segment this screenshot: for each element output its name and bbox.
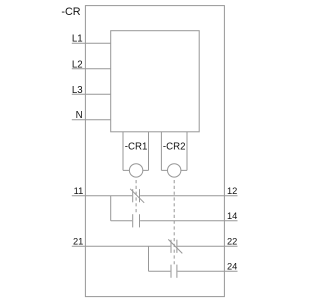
svg-text:-CR2: -CR2 <box>163 142 186 153</box>
svg-text:N: N <box>76 110 83 121</box>
svg-text:L2: L2 <box>72 60 83 71</box>
svg-text:24: 24 <box>227 262 237 272</box>
svg-text:-CR1: -CR1 <box>125 142 148 153</box>
svg-text:11: 11 <box>74 186 84 196</box>
svg-text:14: 14 <box>227 211 237 221</box>
svg-text:12: 12 <box>227 186 237 196</box>
svg-text:-CR: -CR <box>61 6 80 18</box>
svg-text:22: 22 <box>227 237 237 247</box>
svg-text:L3: L3 <box>72 85 83 96</box>
svg-text:21: 21 <box>73 237 83 247</box>
svg-text:L1: L1 <box>72 34 83 45</box>
